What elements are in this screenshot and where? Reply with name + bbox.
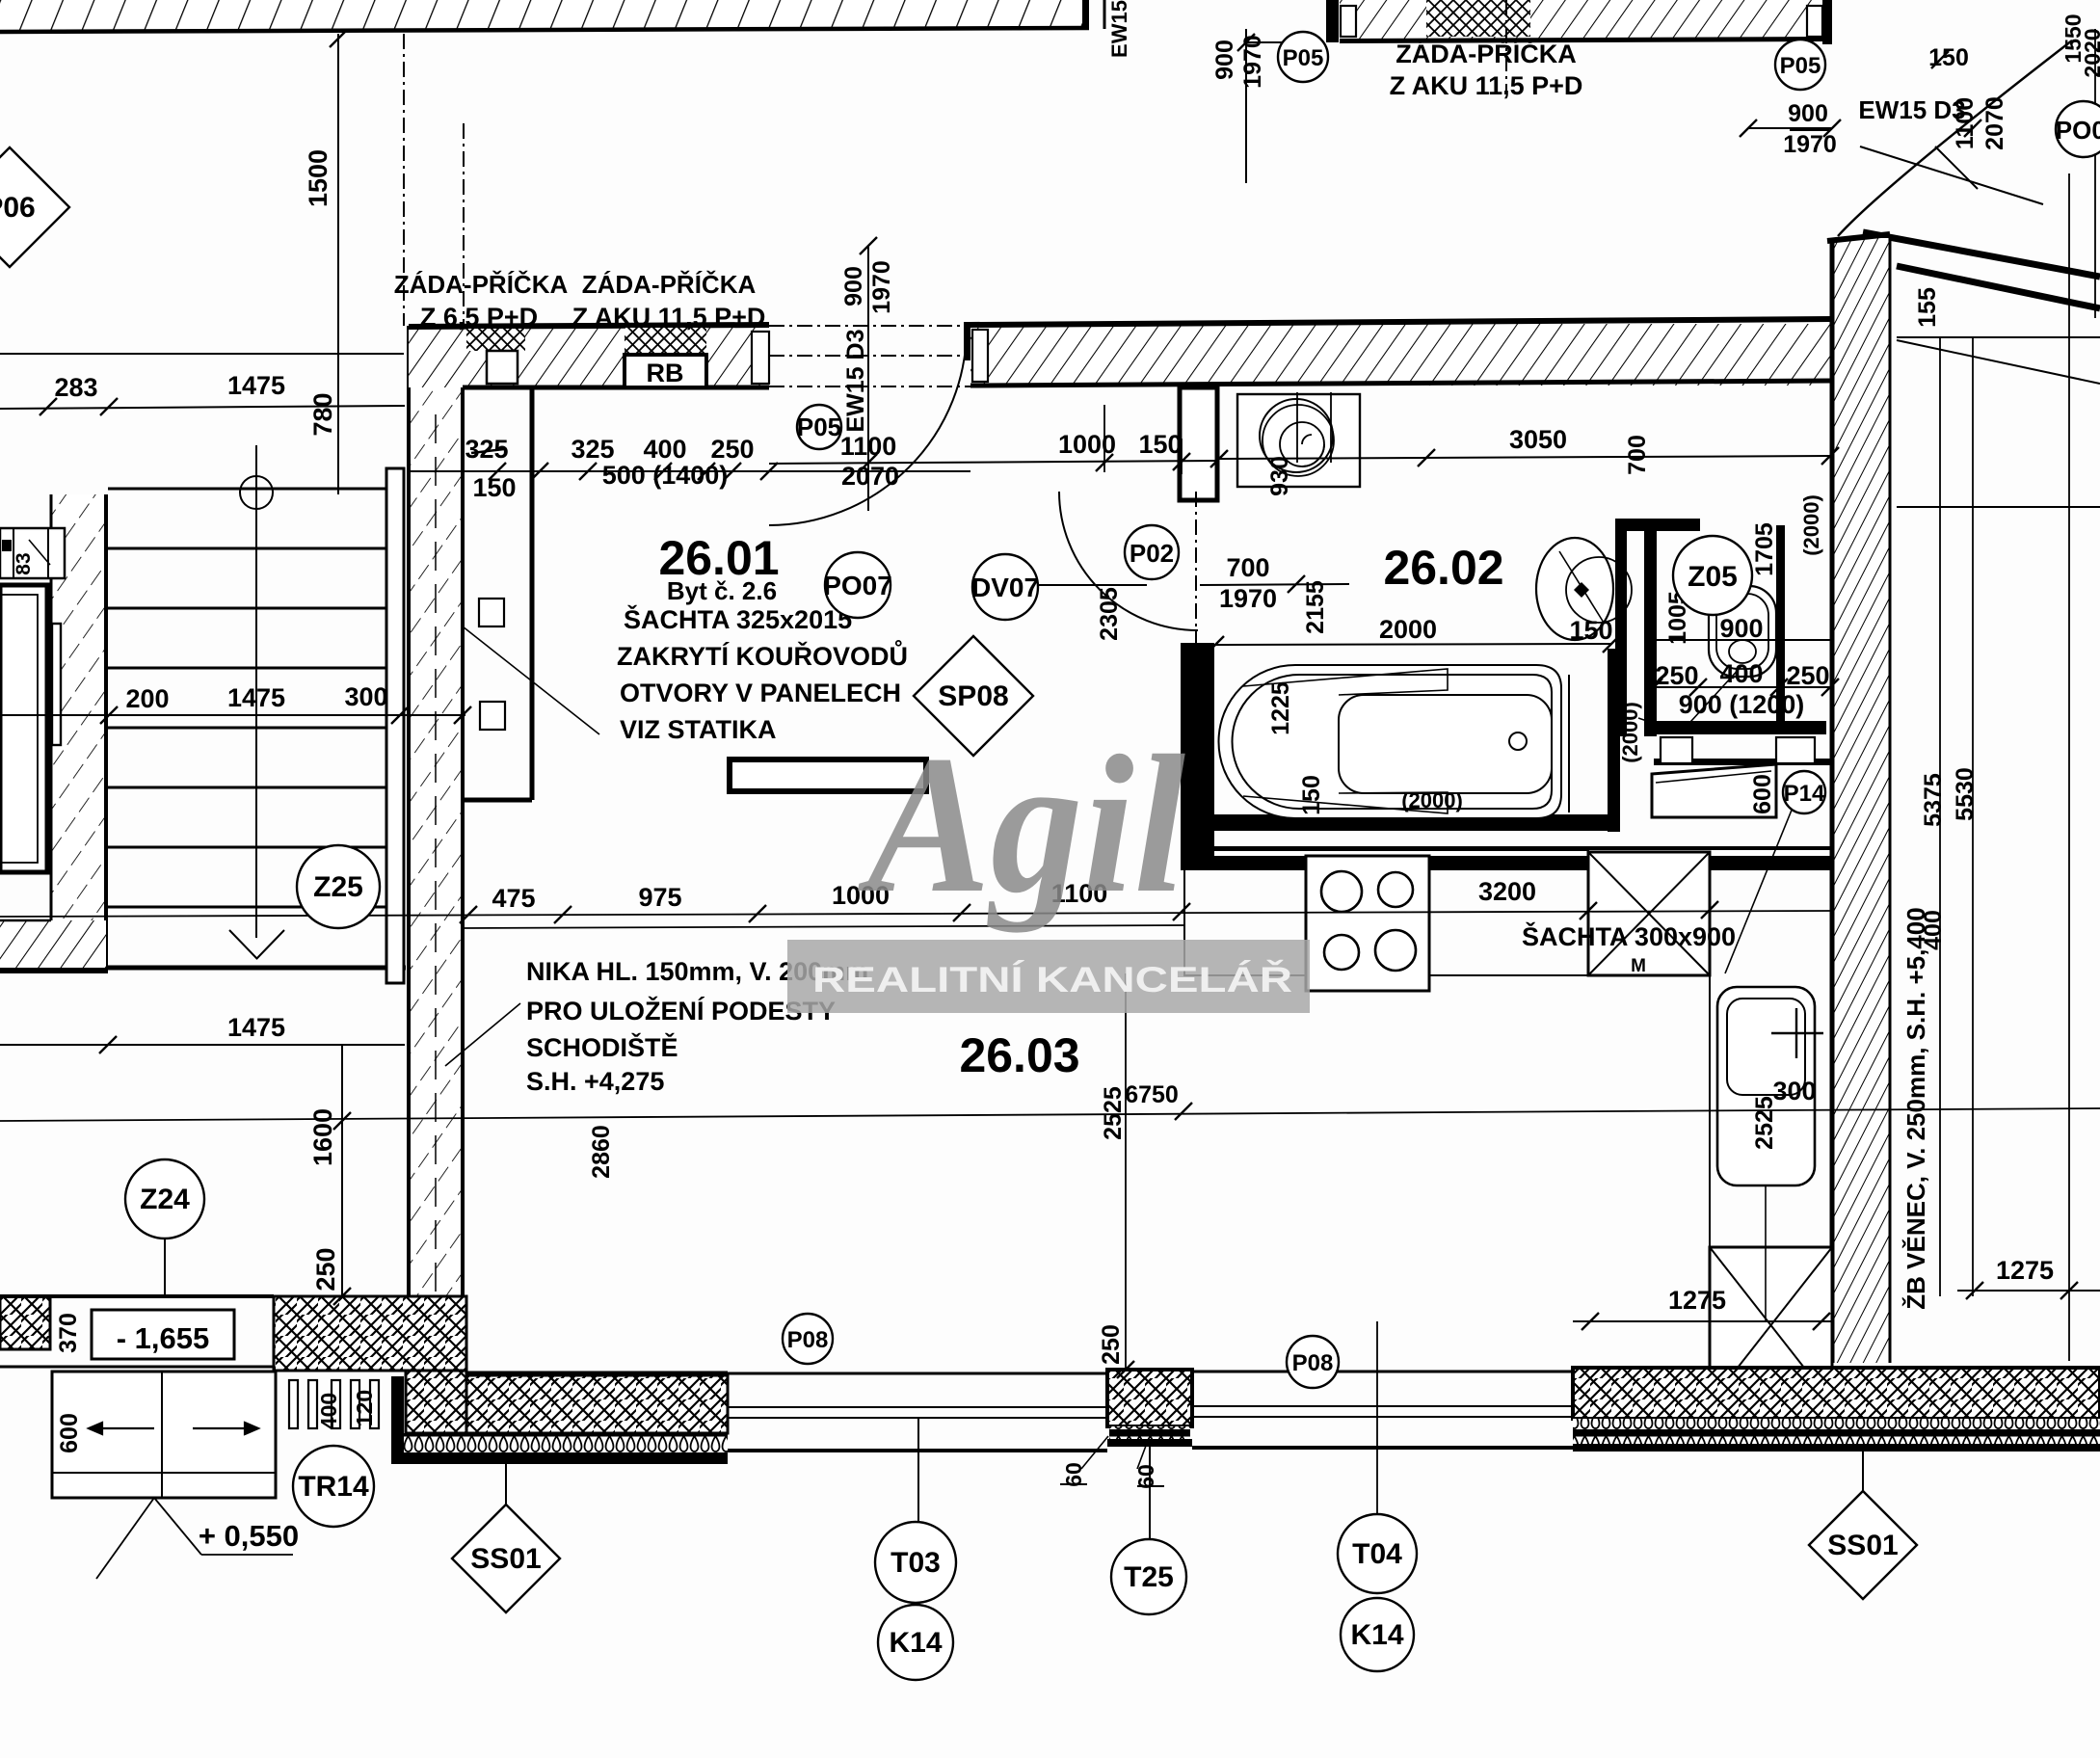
svg-text:P14: P14 (1784, 781, 1825, 807)
svg-text:P05: P05 (1780, 53, 1821, 79)
svg-text:ŽB VĚNEC, V. 250mm, S.H. +5,40: ŽB VĚNEC, V. 250mm, S.H. +5,400 (1901, 907, 1930, 1309)
svg-text:T03: T03 (891, 1547, 941, 1579)
svg-text:900: 900 (840, 266, 867, 306)
svg-text:600: 600 (1749, 774, 1776, 814)
svg-text:1100: 1100 (1952, 97, 1979, 149)
svg-text:EW15: EW15 (1107, 0, 1131, 58)
svg-text:2070: 2070 (841, 462, 899, 491)
svg-text:200: 200 (125, 684, 169, 713)
svg-text:DV07: DV07 (971, 573, 1039, 602)
svg-text:250: 250 (1098, 1324, 1125, 1365)
svg-text:2000: 2000 (1379, 615, 1437, 644)
svg-text:900: 900 (1788, 100, 1828, 127)
svg-text:2305: 2305 (1096, 587, 1123, 641)
svg-text:325: 325 (571, 435, 614, 464)
svg-text:SCHODIŠTĚ: SCHODIŠTĚ (526, 1032, 678, 1062)
svg-text:83: 83 (13, 552, 35, 574)
svg-text:1275: 1275 (1996, 1256, 2054, 1285)
svg-text:900: 900 (1719, 614, 1763, 643)
svg-text:P02: P02 (1130, 539, 1174, 568)
svg-text:ZAKRYTÍ KOUŘOVODŮ: ZAKRYTÍ KOUŘOVODŮ (617, 639, 908, 671)
svg-text:T04: T04 (1352, 1538, 1402, 1570)
svg-text:370: 370 (55, 1313, 82, 1353)
svg-text:900: 900 (1211, 40, 1238, 80)
svg-text:2070: 2070 (1981, 96, 2008, 150)
svg-text:1970: 1970 (1783, 131, 1837, 158)
svg-text:1970: 1970 (868, 260, 895, 314)
svg-text:(2000): (2000) (1799, 494, 1823, 556)
svg-text:250: 250 (1655, 661, 1698, 690)
svg-text:475: 475 (492, 884, 535, 913)
svg-text:PO07: PO07 (823, 571, 892, 600)
svg-text:1600: 1600 (308, 1108, 337, 1166)
svg-text:5375: 5375 (1920, 773, 1947, 827)
svg-text:Z AKU 11,5 P+D: Z AKU 11,5 P+D (572, 303, 766, 332)
svg-text:250: 250 (311, 1247, 340, 1291)
svg-text:ŠACHTA 300x900: ŠACHTA 300x900 (1522, 921, 1736, 951)
svg-text:1500: 1500 (304, 149, 332, 207)
svg-text:26.02: 26.02 (1383, 541, 1503, 595)
svg-text:ZÁDA-PŘÍČKA: ZÁDA-PŘÍČKA (1396, 39, 1576, 68)
svg-text:3200: 3200 (1478, 877, 1536, 906)
svg-text:P08: P08 (1292, 1350, 1334, 1376)
svg-text:RB: RB (647, 359, 684, 387)
svg-text:2525: 2525 (1100, 1086, 1127, 1140)
svg-text:VIZ STATIKA: VIZ STATIKA (620, 715, 777, 744)
svg-text:Z AKU 11,5 P+D: Z AKU 11,5 P+D (1390, 71, 1583, 100)
svg-text:P06: P06 (0, 192, 36, 224)
svg-text:EW15 D3: EW15 D3 (1858, 95, 1965, 124)
svg-text:6750: 6750 (1125, 1081, 1179, 1108)
svg-text:155: 155 (1914, 287, 1941, 328)
svg-text:300: 300 (1772, 1077, 1816, 1105)
svg-text:300: 300 (344, 682, 387, 711)
svg-text:- 1,655: - 1,655 (117, 1321, 210, 1355)
svg-text:1705: 1705 (1751, 522, 1778, 576)
svg-text:1970: 1970 (1239, 35, 1266, 89)
svg-text:2155: 2155 (1302, 580, 1329, 634)
svg-text:3050: 3050 (1509, 425, 1567, 454)
svg-text:2525: 2525 (1751, 1096, 1778, 1150)
svg-text:5530: 5530 (1952, 767, 1979, 821)
svg-text:OTVORY V PANELECH: OTVORY V PANELECH (620, 679, 901, 707)
svg-text:Z24: Z24 (140, 1184, 190, 1215)
svg-text:Z05: Z05 (1688, 561, 1738, 593)
svg-text:Agil: Agil (858, 715, 1185, 934)
svg-text:2020: 2020 (2080, 28, 2100, 77)
svg-text:120: 120 (352, 1390, 377, 1426)
svg-text:600: 600 (56, 1413, 83, 1453)
svg-text:700: 700 (1226, 553, 1269, 582)
svg-text:60: 60 (1133, 1464, 1158, 1489)
svg-text:1225: 1225 (1267, 681, 1294, 735)
svg-text:Z25: Z25 (313, 871, 363, 903)
svg-text:500 (1400): 500 (1400) (602, 461, 729, 490)
svg-text:283: 283 (54, 373, 97, 402)
svg-text:1100: 1100 (840, 432, 897, 461)
svg-text:Z 6,5 P+D: Z 6,5 P+D (420, 303, 538, 332)
svg-text:150: 150 (1569, 616, 1612, 645)
svg-text:250: 250 (1786, 661, 1829, 690)
svg-text:1475: 1475 (227, 1013, 285, 1042)
svg-text:975: 975 (638, 883, 681, 912)
svg-text:1275: 1275 (1668, 1286, 1726, 1315)
svg-text:P08: P08 (787, 1327, 829, 1353)
svg-text:900 (1200): 900 (1200) (1679, 690, 1805, 719)
svg-text:400: 400 (316, 1393, 341, 1429)
svg-text:ZÁDA-PŘÍČKA: ZÁDA-PŘÍČKA (582, 270, 757, 299)
svg-text:ZÁDA-PŘÍČKA: ZÁDA-PŘÍČKA (394, 270, 569, 299)
svg-text:K14: K14 (1350, 1619, 1403, 1651)
svg-text:Byt č. 2.6: Byt č. 2.6 (667, 576, 777, 605)
svg-text:1000: 1000 (1058, 430, 1116, 459)
svg-text:150: 150 (1138, 430, 1182, 459)
svg-text:P05: P05 (797, 413, 841, 441)
svg-text:1475: 1475 (227, 371, 285, 400)
svg-text:SP08: SP08 (938, 680, 1008, 712)
svg-text:ŠACHTA 325x2015: ŠACHTA 325x2015 (624, 604, 852, 634)
svg-text:150: 150 (472, 473, 516, 502)
svg-text:(2000): (2000) (1618, 702, 1642, 763)
svg-text:S.H. +4,275: S.H. +4,275 (526, 1067, 664, 1096)
svg-text:M: M (1631, 956, 1646, 976)
svg-text:60: 60 (1061, 1462, 1086, 1487)
svg-text:2860: 2860 (588, 1125, 615, 1179)
svg-text:150: 150 (1928, 44, 1969, 71)
svg-text:TR14: TR14 (298, 1471, 369, 1503)
svg-text:K14: K14 (889, 1627, 942, 1659)
svg-text:400: 400 (643, 435, 686, 464)
svg-text:EW15 D3: EW15 D3 (842, 330, 869, 433)
svg-text:(2000): (2000) (1401, 788, 1463, 812)
svg-text:PO08: PO08 (2056, 116, 2100, 145)
svg-text:T25: T25 (1124, 1561, 1174, 1593)
svg-text:P05: P05 (1283, 45, 1324, 71)
svg-text:SS01: SS01 (470, 1543, 541, 1575)
svg-text:+ 0,550: + 0,550 (199, 1519, 299, 1553)
svg-text:26.03: 26.03 (959, 1028, 1079, 1082)
svg-text:250: 250 (710, 435, 754, 464)
svg-text:1970: 1970 (1219, 584, 1277, 613)
svg-text:700: 700 (1624, 435, 1651, 475)
svg-text:SS01: SS01 (1827, 1530, 1898, 1561)
svg-text:400: 400 (1719, 659, 1763, 688)
svg-text:780: 780 (308, 392, 337, 436)
svg-text:REALITNÍ KANCELÁŘ: REALITNÍ KANCELÁŘ (812, 959, 1292, 999)
svg-text:1475: 1475 (227, 683, 285, 712)
svg-text:930: 930 (1266, 456, 1293, 496)
svg-text:150: 150 (1298, 775, 1325, 815)
